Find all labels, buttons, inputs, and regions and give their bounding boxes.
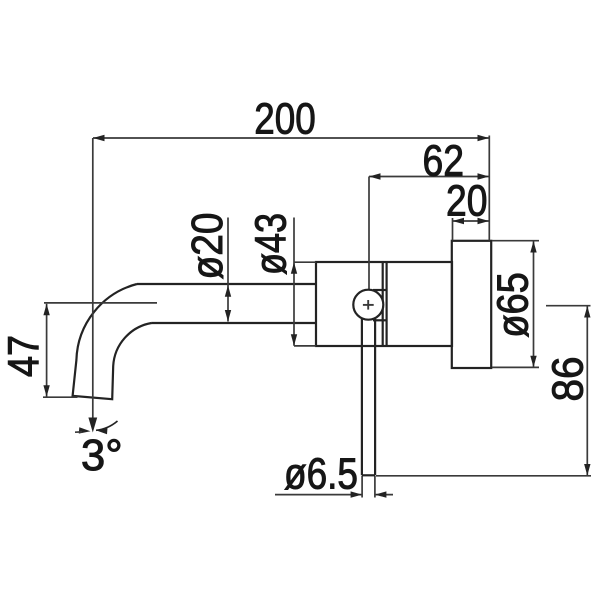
svg-text:ø43: ø43 <box>247 213 295 275</box>
svg-text:ø6.5: ø6.5 <box>284 451 358 499</box>
svg-text:3°: 3° <box>81 432 123 480</box>
svg-text:200: 200 <box>254 95 315 143</box>
svg-text:ø65: ø65 <box>489 272 537 338</box>
svg-text:20: 20 <box>446 177 488 225</box>
svg-text:86: 86 <box>544 357 592 402</box>
svg-text:47: 47 <box>0 335 48 377</box>
svg-text:ø20: ø20 <box>184 213 232 280</box>
